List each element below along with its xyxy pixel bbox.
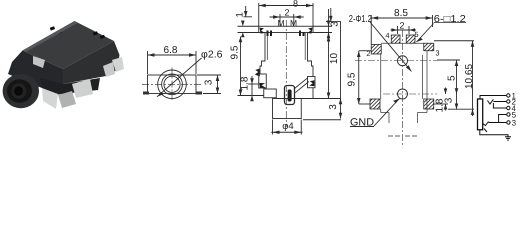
svg-text:6-□1.2: 6-□1.2 bbox=[434, 14, 466, 25]
svg-text:1.8: 1.8 bbox=[240, 76, 251, 90]
svg-text:4: 4 bbox=[385, 31, 389, 40]
svg-text:5: 5 bbox=[447, 75, 458, 81]
svg-text:10: 10 bbox=[329, 53, 340, 65]
svg-text:10.65: 10.65 bbox=[464, 64, 475, 89]
svg-text:5: 5 bbox=[414, 30, 418, 39]
svg-text:M: M bbox=[290, 18, 297, 28]
svg-text:8.5: 8.5 bbox=[394, 8, 408, 19]
svg-text:9.5: 9.5 bbox=[230, 45, 241, 59]
svg-text:8: 8 bbox=[293, 0, 298, 9]
svg-text:6.8: 6.8 bbox=[164, 45, 178, 56]
svg-text:φ2.6: φ2.6 bbox=[201, 50, 223, 61]
svg-text:2: 2 bbox=[366, 49, 370, 58]
svg-text:φ4: φ4 bbox=[282, 121, 293, 132]
svg-text:GND: GND bbox=[350, 117, 374, 129]
svg-text:M: M bbox=[277, 18, 284, 28]
svg-text:1: 1 bbox=[235, 12, 246, 17]
svg-text:2-Φ1.2: 2-Φ1.2 bbox=[349, 14, 372, 25]
svg-text:2: 2 bbox=[399, 21, 404, 31]
svg-text:2: 2 bbox=[284, 8, 289, 18]
svg-text:3: 3 bbox=[444, 97, 455, 103]
svg-text:3: 3 bbox=[435, 49, 439, 58]
svg-text:3: 3 bbox=[204, 79, 215, 85]
svg-text:3: 3 bbox=[330, 21, 341, 27]
svg-text:3: 3 bbox=[328, 104, 339, 110]
svg-text:9.5: 9.5 bbox=[347, 72, 358, 86]
svg-text:3: 3 bbox=[512, 119, 517, 128]
